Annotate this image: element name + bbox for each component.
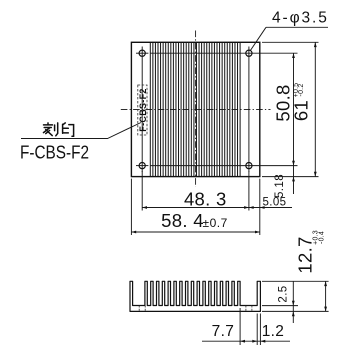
dim 12.7 extension bottom — [262, 310, 329, 312]
top view outer outline — [131, 42, 259, 176]
dim 7.7 / 1.2 line — [202, 340, 290, 342]
dim 48.3 / 5.05 line — [142, 207, 292, 209]
label kokuin kanji 刻 — [44, 123, 58, 136]
dim 58.4 extensions — [130, 179, 132, 235]
svg-text:1.2: 1.2 — [262, 323, 284, 340]
svg-text:F-CBS-F2: F-CBS-F2 — [138, 88, 148, 131]
svg-text:F-CBS-F2: F-CBS-F2 — [20, 142, 89, 162]
dim 61 extension bottom — [262, 176, 319, 178]
label kokuin kanji 印 — [63, 123, 74, 136]
hole bottom-right — [246, 163, 252, 169]
left holes horizontal crosshairs — [136, 52, 148, 54]
dim 61 extension top — [262, 41, 319, 43]
svg-text:2.5: 2.5 — [277, 285, 289, 302]
svg-text:4-φ3.5: 4-φ3.5 — [272, 10, 329, 27]
svg-text:-0.4: -0.4 — [319, 231, 326, 244]
svg-text:-0.2: -0.2 — [298, 84, 305, 97]
dim 12.7 line — [325, 281, 327, 311]
hole top-left — [139, 50, 145, 56]
dim 58.4 line — [131, 231, 259, 233]
left holes vertical connector line — [141, 47, 143, 173]
dim 61 line — [314, 42, 316, 176]
dim 7.7 / 1.2 extensions — [239, 308, 241, 345]
svg-text:48. 3: 48. 3 — [184, 189, 227, 210]
arrow up at 176.6 (for 5.18) — [292, 177, 295, 182]
svg-text:61: 61 — [290, 100, 311, 121]
arrow up at 53.2 — [292, 53, 295, 58]
dim 48.3 extensions — [141, 171, 143, 211]
horizontal dash-dot centerline — [121, 109, 271, 111]
top view fin lines — [150, 42, 240, 176]
label underline — [266, 26, 328, 28]
hole top-right — [246, 50, 252, 56]
dim 2.5 extension (base top) — [262, 305, 298, 307]
inner horizontal line bottom (hole center level) — [150, 165, 297, 167]
svg-text:5.05: 5.05 — [263, 196, 287, 208]
arrow down at 165.6 — [292, 161, 295, 166]
leader line to engraving — [21, 123, 141, 139]
svg-text:5.18: 5.18 — [274, 174, 286, 198]
dim 50.8 / 5.18 dimension line — [293, 53, 295, 194]
svg-text:7.7: 7.7 — [212, 323, 234, 340]
hole bottom-left — [139, 163, 145, 169]
svg-text:58. 4: 58. 4 — [161, 210, 204, 231]
leader to top-right hole — [250, 27, 266, 50]
right holes vertical connector line — [248, 47, 250, 173]
inner horizontal line top (hole center level) — [150, 52, 297, 54]
dim 12.7 extension top — [262, 280, 329, 282]
hidden hole lines right — [245, 306, 247, 312]
vertical dash-dot centerline — [195, 31, 197, 188]
engraving dashed rectangle — [138, 85, 147, 135]
side view profile — [130, 281, 260, 311]
dim 2.5 line — [292, 281, 294, 323]
svg-text:±0.7: ±0.7 — [203, 216, 228, 230]
hidden hole lines left — [138, 306, 140, 312]
